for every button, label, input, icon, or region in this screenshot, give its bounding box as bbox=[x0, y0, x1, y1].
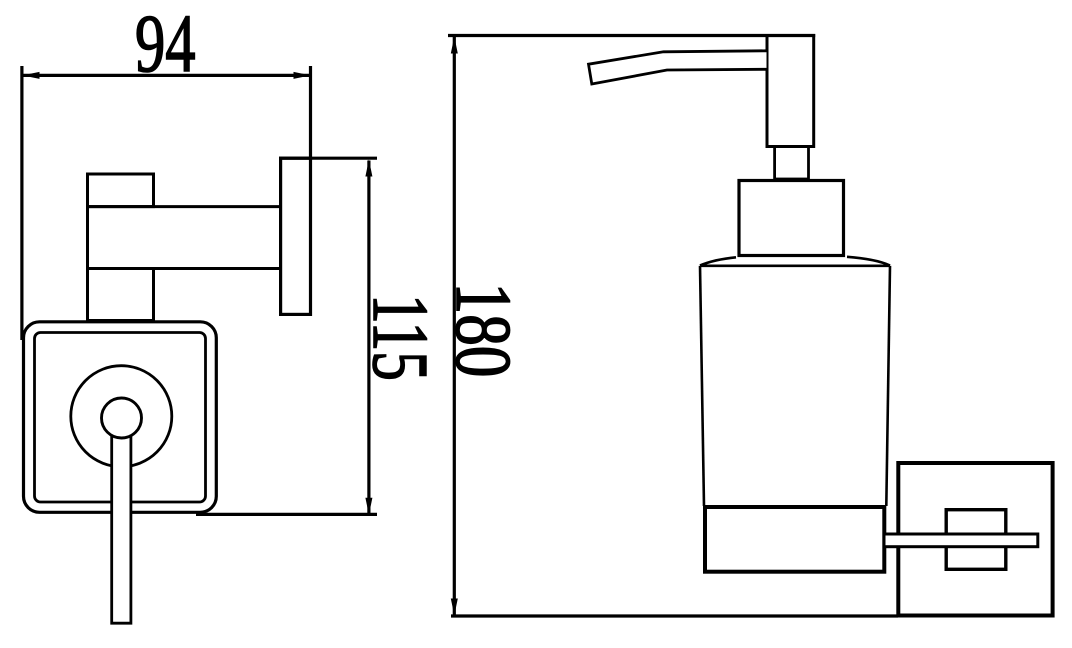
dimension 115 line bbox=[367, 161, 370, 514]
pump rod (front view) bbox=[112, 435, 131, 624]
dimension 180 bottom extension line bbox=[451, 614, 898, 617]
holder ring outer circle bbox=[71, 366, 172, 467]
dimension 94 right extension line bbox=[309, 66, 312, 160]
dimension 115 bottom extension line bbox=[196, 513, 377, 516]
pump head bbox=[767, 36, 814, 147]
holder plate outer (rounded square) bbox=[24, 322, 217, 513]
dimension 94 line bbox=[22, 74, 311, 77]
pump collar bbox=[739, 181, 844, 256]
wall plate (side view) bbox=[281, 158, 311, 314]
mounting arm horizontal bar bbox=[88, 207, 283, 269]
svg-text:180: 180 bbox=[440, 283, 527, 378]
dimension 115 top extension line bbox=[279, 157, 377, 160]
dimension 94 left extension line bbox=[20, 66, 23, 340]
mounting arm bottom block bbox=[88, 269, 154, 321]
wall bracket square (side view) bbox=[898, 463, 1052, 616]
dimension 94 left arrow bbox=[22, 72, 39, 79]
dimension 180 top arrow bbox=[451, 37, 458, 54]
dimension 180 bottom arrow bbox=[451, 599, 458, 616]
bottle rim line bbox=[700, 264, 890, 267]
holder plate inner square bbox=[35, 333, 206, 503]
dimension 94 right arrow bbox=[294, 72, 311, 79]
dimension 180 top extension line bbox=[448, 34, 815, 37]
bottle shoulder right bbox=[847, 257, 890, 266]
bracket horizontal bar bbox=[884, 534, 1038, 547]
bottle bottom band bbox=[705, 507, 884, 572]
holder ring inner circle bbox=[102, 398, 142, 438]
bottle right side bbox=[886, 266, 890, 506]
bottle shoulder left bbox=[700, 257, 736, 265]
mounting arm top block bbox=[88, 174, 154, 207]
dimension 115 bottom arrow bbox=[365, 498, 372, 515]
pump spout bbox=[589, 51, 767, 84]
dimension 115 top arrow bbox=[365, 160, 372, 177]
svg-text:115: 115 bbox=[356, 294, 443, 381]
pump neck bbox=[775, 147, 809, 180]
dimension 180 line bbox=[453, 37, 456, 615]
wall bracket inner square bbox=[946, 510, 1006, 570]
bottle left side bbox=[700, 266, 704, 506]
